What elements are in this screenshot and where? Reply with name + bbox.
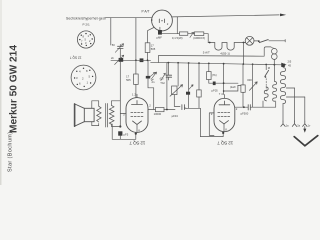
svg-text:µF5: µF5 [124,132,129,136]
wire drop x243 resistor [242,64,244,85]
wire drop x188.6 [188,63,190,92]
svg-text:50: 50 [112,43,115,47]
wire R4 to tube V1 top [135,60,137,97]
svg-text:4(55-1): 4(55-1) [220,51,230,55]
wire U3 pin2 drop [176,17,178,34]
resistor R1 [145,43,150,53]
wire C4 to V1 plate pin [148,79,154,110]
wire tap1 down [282,104,284,121]
mains chevron [294,136,318,146]
wire to choke bottoms [263,101,276,107]
node switch dot [258,40,260,42]
svg-text:(7k): (7k) [212,73,217,77]
tube socket V1 [77,31,94,48]
variable arrow2 mid [161,73,166,80]
node dots on rail B [168,62,276,66]
tap terminal T2 [292,121,296,126]
tube V2 [211,98,238,131]
scan edge band [0,0,2,185]
svg-text:TGl: TGl [160,81,165,85]
wire circle bottom to R1 [148,28,154,43]
variable arrows middle [151,72,157,79]
svg-text:5 A/T: 5 A/T [203,50,210,54]
tap wires W2 [286,88,305,97]
wire drop x208.8 resistor [208,63,210,71]
svg-text:(2wF: (2wF [230,85,236,89]
label R4 value [126,74,131,82]
wire switch to mains [269,40,285,42]
node plate junction [243,106,245,108]
switch end tick [284,40,286,42]
svg-text:2n: 2n [152,80,155,84]
choke L1 [264,87,268,102]
resistor R8 [207,72,212,80]
resistor R9 [241,85,245,92]
wire drop x199 [198,63,200,90]
wire rails link [158,56,160,63]
svg-text:7 4: 7 4 [219,92,223,96]
potentiometer P1 [170,85,183,97]
resistor R5 [179,32,187,35]
wire pot bottom [174,95,180,107]
bus rail A y55.6 [159,55,265,58]
wire R1 to node row [147,53,149,61]
svg-text:µF05: µF05 [212,89,219,93]
svg-text:(URDOX): (URDOX) [193,36,205,40]
trimmer C2 [112,43,124,58]
svg-text:12 SQ 7: 12 SQ 7 [217,141,233,146]
arrowhead top rail [280,14,286,17]
svg-text:Merkur 50 GW 214: Merkur 50 GW 214 [9,45,20,133]
wire drop left column [110,18,112,45]
wire R5 to R6 [188,33,195,35]
wire R8 bottom [208,80,210,84]
wire screen L link [224,85,241,91]
wire tap2 down [294,88,296,121]
resistor R7 [197,90,202,97]
wire C4 top [147,60,149,76]
dial lamp LA [245,36,254,45]
terminal square W2 top [281,64,284,67]
svg-text:Sechskreishyperhet-gedr: Sechskreishyperhet-gedr [66,17,107,21]
tube socket V2 [71,65,96,90]
svg-text:2/5: 2/5 [288,60,292,64]
wire drop x178 pot [177,63,179,86]
wire V2 grid drop [200,108,223,136]
wire plate to OT [251,106,264,108]
wire lamp column drop [243,43,245,65]
svg-text:12 SQ 7: 12 SQ 7 [70,56,82,60]
resistor R6 URDOX [194,32,203,36]
capacitor C6 black at chain start [158,30,162,35]
svg-text:P 2/1: P 2/1 [83,22,90,26]
svg-text:505: 505 [126,78,131,82]
power winding W2 [280,68,285,104]
capacitor C7 [166,75,171,77]
node screen L [223,90,225,92]
coupling cap CC box [155,108,164,112]
tube V1 [123,93,151,133]
wire mid row y60 [111,59,151,61]
wire C9 bottom [188,95,190,109]
wire CC to junction [164,109,167,111]
wire T1 primary top [112,101,121,106]
node junction dot [119,125,121,127]
wire V1 grid to column [120,113,126,115]
wire chain row [162,33,180,35]
svg-text:1 2: 1 2 [132,93,136,97]
wire U3 pin to C6 [159,27,161,30]
node dot row2 [147,59,149,61]
capacitor C11 [248,105,250,110]
wire drop x223.6 to V2 top [223,64,226,99]
arrow C4 [150,72,155,80]
svg-text:17: 17 [126,74,129,78]
node screen row [223,82,225,84]
wire C7 bottom [167,77,169,80]
wire tap3 down [304,97,306,121]
svg-text:Star (Bochum): Star (Bochum) [8,132,14,172]
wire top-left rail [105,17,151,19]
resistor hum coil zigzag [97,106,101,122]
node W1 right [243,42,245,44]
label R1 value [151,43,156,50]
svg-text:000: 000 [247,78,252,82]
choke L3 [264,47,277,65]
node V2 bottom pin [222,132,224,134]
bus rail B y62.6 [151,62,282,65]
wire drop x168 [167,63,169,75]
svg-text:P A/T: P A/T [142,10,150,14]
wire top long rail to arrow [172,15,279,17]
node dot row [135,59,137,61]
svg-text:17: 17 [151,43,154,47]
tap terminal T1 [281,121,285,126]
wire R6 to heater coil [204,34,208,43]
wire drop to R2 column [135,18,137,61]
wire V2 plate right [235,106,248,108]
rectifier tube U3 [151,10,172,31]
capacitor C4 black [146,76,150,79]
svg-text:10000: 10000 [154,112,162,116]
wire T1 primary bottom [112,124,121,127]
wire V2 grid left stub [209,113,214,135]
speaker LS [75,101,99,126]
transformer T1 core [106,104,108,128]
choke L2 [273,82,277,102]
wire V1 plate to CC [148,109,155,111]
svg-text:45: 45 [288,63,291,67]
tap arrow [190,32,194,37]
transformer T1 primary zigzag [109,105,114,124]
svg-text:µF500: µF500 [241,112,249,116]
variable arrow C12 [249,82,257,91]
black terminal arrow rail B [281,63,286,67]
capacitor C5 black [118,131,122,135]
node W1 left [209,42,211,44]
node V1 bottom pin [135,133,137,135]
wire C8 to grid wire [185,107,187,109]
svg-text:2n: 2n [111,56,114,60]
wire R9 bottom [242,92,245,107]
capacitor C1 black [140,58,144,62]
tap terminal T3 [303,121,307,126]
wire cathode bottom loop [112,124,136,139]
wire x166.9 column [166,63,168,110]
wire R7 bottom [198,97,200,108]
svg-text:0,1 5(W): 0,1 5(W) [172,36,183,40]
trimmer C3 [111,55,124,64]
arrowhead plug lead [303,129,306,133]
svg-text:505: 505 [151,47,156,51]
svg-text:µF04: µF04 [172,114,179,118]
switch S2 [265,65,271,92]
node coupling junction [166,109,168,111]
capacitor C8 series [182,105,185,110]
capacitor C9 trimmer [186,92,190,95]
svg-text:µMF: µMF [157,35,163,39]
svg-text:12 SQ 7: 12 SQ 7 [129,140,145,145]
wire plug lead [304,127,306,130]
wire L2 top [274,65,276,82]
wire left column down [119,62,121,127]
switch S1 blade [259,40,268,43]
heater winding W1 [208,43,245,51]
resistor R4 [134,74,139,84]
wire screen row y83 [209,82,238,84]
wire lamp to switch [254,40,259,42]
wire drop x252.6 variable [252,64,254,107]
wire grid run to V2 [167,108,201,109]
wire black cap feed [140,59,144,61]
capacitor C10 black [213,82,216,86]
